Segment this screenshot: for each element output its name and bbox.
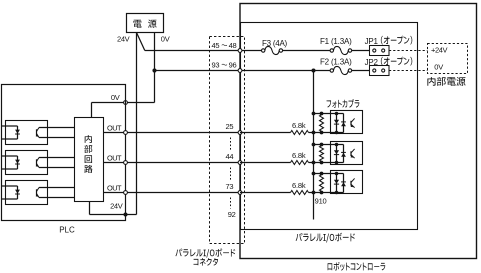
dashed wire JP2 to internal 0V (389, 70, 428, 72)
row 3 resistor to rail (309, 192, 314, 194)
PLC output opto box 2 (6, 151, 48, 175)
jumper JP2 pins (373, 69, 376, 72)
photocoupler box row 2 (331, 142, 363, 165)
photocoupler box row 3 (331, 171, 363, 194)
opto 3 LED stubs (2, 185, 18, 187)
fuse F3 (265, 46, 279, 54)
svg-text:0V: 0V (434, 63, 443, 72)
row 2 wire to resistor (240, 162, 291, 164)
svg-text:44: 44 (226, 152, 234, 161)
photocoupler LED row 3 (336, 174, 338, 193)
resistor 910 row 3 (320, 175, 324, 192)
svg-text:24V: 24V (110, 202, 123, 211)
photocoupler transistor row 1 (350, 121, 352, 126)
row 2 resistor to rail (309, 162, 314, 164)
svg-text:F1 (1.3A): F1 (1.3A) (320, 37, 352, 46)
svg-text:6.8k: 6.8k (292, 181, 306, 190)
resistor 6.8k row 3 (291, 191, 309, 195)
svg-text:0V: 0V (111, 93, 120, 102)
robot controller box (240, 4, 477, 259)
wire 24V into PLC (90, 214, 137, 216)
resistor 6.8k row 1 (291, 131, 309, 135)
terminal circle PLC OUT 3 (124, 191, 128, 195)
svg-text:OUT: OUT (107, 154, 122, 163)
row 3 bottom branch (314, 192, 344, 194)
svg-text:F3 (4A): F3 (4A) (262, 39, 288, 48)
photocoupler LED row 2 (336, 145, 338, 163)
label JP1 open (381, 36, 412, 45)
node rail row 3 (312, 172, 316, 176)
svg-text:OUT: OUT (107, 184, 122, 193)
opto 1 LED stubs (2, 125, 18, 127)
internal power dashed box (428, 44, 468, 74)
terminal circle controller 44 (238, 161, 242, 165)
wire 0V inside PLC (92, 102, 126, 104)
wire 24V vertical drop (136, 33, 138, 215)
photocoupler transistor row 3 (350, 181, 352, 186)
opto 1 LED diode (15, 130, 20, 134)
svg-text:PLC: PLC (59, 226, 75, 235)
label parallel I/O board (296, 233, 355, 243)
wire 0V vertical drop (154, 33, 156, 103)
resistor 910 row 2 (320, 146, 324, 162)
ellipsis dashes 73-92 (230, 198, 232, 209)
svg-text:910: 910 (315, 197, 327, 206)
photocoupler diode2 row 2 (343, 145, 345, 163)
svg-text:+24V: +24V (431, 46, 448, 55)
rail 0V vertical (313, 71, 315, 220)
terminal circle controller 93-96 (238, 69, 242, 73)
svg-text:48: 48 (229, 41, 237, 50)
svg-text:6.8k: 6.8k (292, 121, 306, 130)
label DENGEN (133, 20, 141, 28)
power supply box (127, 14, 164, 33)
label connector line2 (193, 258, 217, 266)
label internal circuit vertical (85, 135, 92, 143)
opto 3 wires to internal circuit (39, 187, 75, 189)
opto 3 transistor (36, 189, 38, 195)
opto 2 wires to internal circuit (39, 157, 75, 159)
svg-text:92: 92 (228, 210, 236, 219)
ellipsis dashes 44-73 (230, 168, 232, 181)
opto 1 transistor (36, 129, 38, 135)
node rail top (312, 69, 316, 73)
wire F3 to F1 (283, 50, 331, 52)
svg-text:JP2: JP2 (365, 58, 379, 67)
svg-text:OUT: OUT (107, 124, 122, 133)
photocoupler diode2 row 1 (343, 114, 345, 133)
PLC output opto box 3 (6, 181, 48, 205)
node 910 row 1 (320, 112, 324, 116)
row 1 resistor to rail (309, 132, 314, 134)
node 910 row 3 (320, 172, 324, 176)
row 3 wire to resistor (240, 192, 291, 194)
wire OUT row 2 (terminal 44) (104, 162, 241, 164)
svg-text:45: 45 (212, 41, 220, 50)
terminal circle PLC OUT 2 (124, 161, 128, 165)
wire F2 to JP2 (352, 70, 370, 72)
opto 2 transistor (36, 159, 38, 165)
dashed wire JP1 to internal 24V (389, 50, 428, 52)
photocoupler transistor row 2 (350, 151, 352, 156)
jumper JP1 box (370, 46, 390, 56)
photocoupler diode2 row 3 (343, 174, 345, 193)
fuse F2 (334, 66, 349, 74)
terminal circle PLC OUT 1 (124, 131, 128, 135)
terminal circle controller 73 (238, 191, 242, 195)
resistor 910 row 1 (320, 115, 324, 132)
opto 2 LED diode (15, 160, 20, 164)
fuse F1 (334, 46, 349, 54)
wire OUT row 3 (terminal 73) (104, 192, 241, 194)
terminal circle controller 45-48 (238, 49, 242, 53)
photocoupler box row 1 (331, 111, 363, 134)
svg-text:0V: 0V (161, 34, 170, 43)
wire 0V down to internal circuit (91, 103, 93, 118)
row 1 top branch (314, 113, 344, 115)
svg-text:F2 (1.3A): F2 (1.3A) (320, 58, 352, 67)
opto 2 LED stubs (2, 155, 18, 157)
connector dashed box (210, 37, 245, 244)
wire 24V diagonal (137, 33, 145, 51)
row 2 top branch (314, 144, 344, 146)
svg-text:96: 96 (229, 61, 237, 70)
node 910 row 2 (320, 143, 324, 147)
row 2 bottom branch (314, 162, 344, 164)
terminal circle controller 25 (238, 131, 242, 135)
row 1 wire to resistor (240, 132, 291, 134)
row 1 bottom branch (314, 132, 344, 134)
svg-text:6.8k: 6.8k (292, 151, 306, 160)
photocoupler LED row 1 (336, 114, 338, 133)
node rail row 1 (312, 112, 316, 116)
node rail row 2 (312, 143, 316, 147)
wire A 45-48 to F3 (145, 50, 262, 52)
svg-text:73: 73 (226, 182, 234, 191)
PLC output opto box 1 (6, 121, 48, 145)
terminal circle PLC 0V (124, 101, 128, 105)
jumper JP2 box (370, 66, 390, 76)
svg-text:24V: 24V (117, 34, 130, 43)
wire F1 to JP1 (352, 50, 370, 52)
row 3 top branch (314, 173, 344, 175)
svg-text:JP1: JP1 (365, 37, 379, 46)
node 0V junction 93-96 (152, 68, 156, 72)
wire 0V to PLC (126, 102, 155, 104)
wire OUT row 1 (terminal 25) (104, 132, 241, 134)
node 24V at PLC edge (124, 213, 128, 217)
opto 1 wires to internal circuit (39, 127, 75, 129)
PLC box (2, 85, 126, 221)
label photocoupler (327, 99, 360, 108)
svg-text:25: 25 (226, 122, 234, 131)
svg-text:93: 93 (212, 61, 220, 70)
wire B 93-96 (155, 70, 331, 72)
label robot controller (328, 262, 386, 271)
parallel I/O board box (241, 23, 418, 230)
jumper JP1 pins (373, 49, 376, 52)
opto 3 LED diode (15, 190, 20, 194)
resistor 6.8k row 2 (291, 161, 309, 165)
label JP2 open (381, 57, 412, 66)
wire 24V to internal circuit (89, 202, 91, 215)
internal circuit box (75, 118, 104, 202)
label parallel I/O board connector line1 (175, 248, 235, 257)
label internal power (427, 77, 465, 86)
ellipsis dashes 25-44 (230, 138, 232, 151)
